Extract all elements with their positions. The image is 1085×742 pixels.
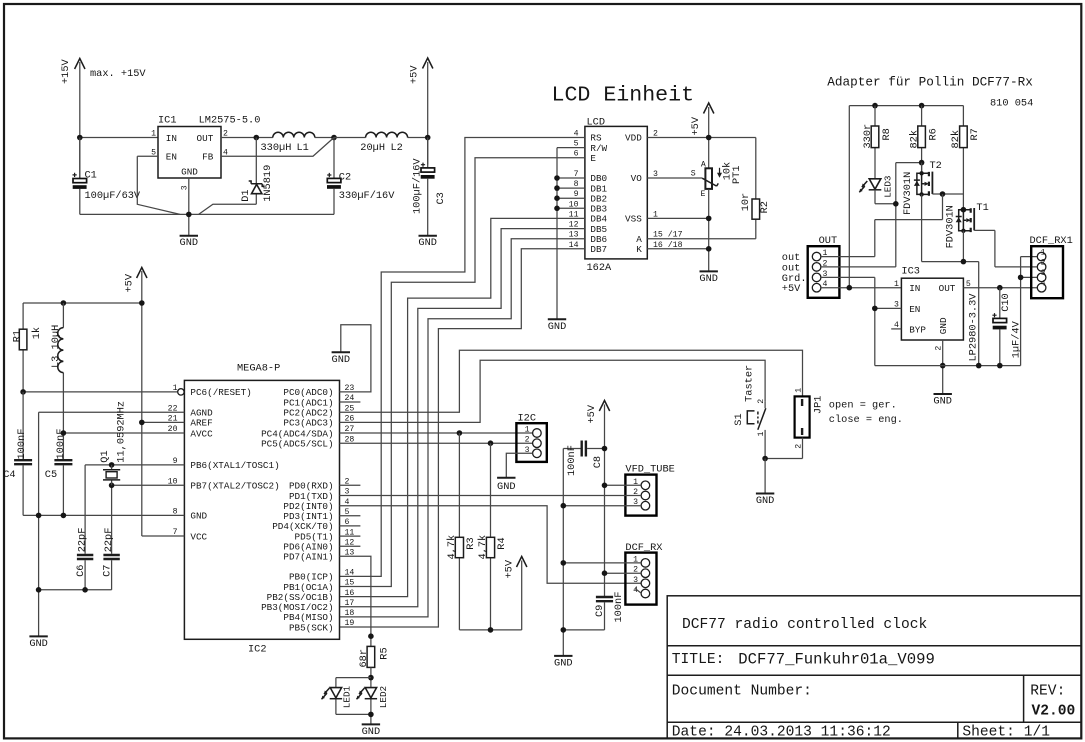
resistor R8 330r [862, 106, 893, 179]
svg-text:330µF/16V: 330µF/16V [339, 190, 395, 202]
svg-text:REV:: REV: [1030, 684, 1065, 700]
junction DCF_RX1 pin3 [1018, 275, 1024, 281]
wire I2C pin3 to ground [506, 453, 532, 477]
svg-text:PD7(AIN1): PD7(AIN1) [283, 552, 333, 563]
adapter top rail [849, 106, 963, 288]
junction S1/JP1 ground [762, 456, 768, 462]
svg-text:100µF/16V: 100µF/16V [411, 158, 423, 214]
ground symbol IC1 [180, 178, 199, 249]
svg-text:OUT: OUT [197, 133, 214, 144]
svg-text:2: 2 [757, 399, 766, 404]
svg-text:3: 3 [1041, 269, 1046, 278]
wire rail up to DCF_RX1 pins 1,3 [1021, 257, 1038, 366]
wire OUT pin4 +5V to IC3 IN [821, 287, 902, 289]
svg-text:GND: GND [497, 481, 516, 493]
svg-text:DB7: DB7 [590, 244, 607, 255]
junction R4 rail [488, 627, 494, 633]
junction VDD/+5V [706, 135, 712, 141]
capacitor C7 22pF [101, 528, 120, 590]
wire LCD A to R2 [647, 238, 756, 240]
wire OUT2 column to T2 drain [896, 163, 922, 267]
svg-text:+5V: +5V [586, 404, 598, 423]
svg-text:100nF: 100nF [613, 592, 625, 623]
svg-text:C2: C2 [339, 171, 351, 183]
connector OUT [808, 235, 840, 298]
MCU left pin numbers [168, 384, 178, 537]
svg-text:1: 1 [894, 280, 899, 289]
junction K [706, 246, 712, 252]
svg-text:3: 3 [633, 576, 638, 585]
wire AGND pin22 [39, 412, 185, 636]
wire GND pin8 row [23, 514, 184, 516]
svg-text:810 054: 810 054 [990, 98, 1033, 110]
top rail R1/L3/+5V [23, 302, 142, 304]
junction C8/+5V [602, 446, 608, 452]
svg-text:17: 17 [345, 599, 355, 608]
junction IC3 GND rail [940, 363, 946, 369]
ground symbol IC3 [933, 394, 952, 408]
MCU unconnected stubs pins 24,2,5,6,11,12 [340, 402, 361, 546]
svg-text:OUT: OUT [939, 283, 956, 294]
svg-text:AREF: AREF [190, 418, 212, 429]
svg-text:L2: L2 [391, 142, 403, 154]
inductor L3 10uH [50, 303, 64, 459]
svg-text:11,0592MHz: 11,0592MHz [115, 401, 127, 463]
supply symbol +5V (MCU) [124, 268, 148, 537]
junction DCFRX1/GND [561, 560, 567, 566]
ground symbol I2C [497, 478, 516, 493]
wire +5V to DCF_RX pin2 [605, 572, 642, 574]
LCD left pin numbers [569, 130, 579, 250]
svg-text:2: 2 [794, 444, 803, 449]
capacitor C6 22pF [75, 528, 94, 590]
capacitor C1 100uF/63V [73, 138, 141, 215]
svg-text:100nF: 100nF [55, 429, 67, 460]
wire PC2 pin25 to JP1 [340, 350, 803, 412]
svg-text:PB5(SCK): PB5(SCK) [289, 622, 334, 633]
pull-up rail to +5V [459, 629, 521, 631]
svg-text:BYP: BYP [909, 324, 926, 335]
junction VSS [706, 216, 712, 222]
junction C10 rail [997, 363, 1003, 369]
svg-text:max. +15V: max. +15V [90, 68, 146, 80]
svg-text:C8: C8 [592, 456, 604, 468]
svg-text:I2C: I2C [518, 413, 537, 425]
svg-text:GND: GND [29, 638, 48, 650]
svg-text:E: E [701, 190, 706, 199]
connector DCF_RX1 [1030, 235, 1073, 298]
junction R6 rail [919, 103, 925, 109]
wire PB7 pin10 to crystal and C7 [112, 485, 185, 554]
svg-text:R3: R3 [465, 537, 477, 549]
MCU right pin numbers [345, 384, 355, 628]
svg-text:LM2575-5.0: LM2575-5.0 [199, 115, 261, 127]
junction LED3/OUT2 [893, 201, 899, 207]
voltage regulator IC1 LM2575-5.0 [151, 115, 260, 191]
junction +15V/C1 [77, 135, 83, 141]
wire PB6 pin9 to crystal and C6 [85, 465, 184, 554]
svg-text:C7: C7 [101, 565, 113, 577]
junction +5V column [847, 285, 853, 291]
svg-text:LED2: LED2 [378, 686, 389, 708]
svg-text:19: 19 [345, 619, 355, 628]
junction EN/Grd column [872, 306, 878, 312]
svg-text:DCF_RX: DCF_RX [625, 542, 662, 554]
wire S1 to ground [764, 459, 766, 494]
crystal Q1 11,0592MHz [99, 401, 128, 485]
wire T2 source down [921, 194, 923, 261]
svg-text:GND: GND [699, 273, 718, 285]
svg-text:EN: EN [909, 304, 920, 315]
wire L1 to C2 node [315, 137, 334, 139]
wire bus DB5: LCD pin12 to MCU PB3 [340, 229, 585, 607]
capacitor C4 100nF [3, 392, 32, 516]
svg-text:IC2: IC2 [248, 644, 267, 656]
adapter ground rail [875, 365, 1021, 367]
svg-text:PT1: PT1 [731, 165, 743, 184]
capacitor C8 100nF [563, 441, 604, 477]
wire PC5 pin28 to I2C pin2 [340, 442, 533, 444]
svg-text:10r: 10r [740, 193, 752, 212]
svg-text:330r: 330r [862, 124, 874, 149]
svg-text:IC1: IC1 [158, 115, 177, 127]
svg-text:K: K [636, 244, 642, 255]
wire OUT pin2 [821, 266, 896, 268]
svg-text:GND: GND [190, 511, 207, 522]
regulator IC3 LP2980-3.3V [894, 265, 971, 350]
wire +5V to VFD pin1 [605, 484, 642, 486]
MCU left pin labels [190, 387, 279, 542]
reset pin bubble [178, 389, 184, 395]
svg-text:1: 1 [757, 432, 766, 437]
junction R4/SCL [488, 440, 494, 446]
svg-text:FDV301N: FDV301N [945, 205, 957, 248]
ground rail C6/C7 [39, 589, 112, 591]
wire IC3 EN [875, 307, 902, 309]
svg-text:S: S [691, 170, 696, 179]
svg-text:Adapter für Pollin DCF77-Rx: Adapter für Pollin DCF77-Rx [827, 75, 1033, 90]
wire bus DB6: LCD pin13 to MCU PB4 [340, 239, 585, 617]
LCD right pin numbers [653, 130, 683, 250]
wire PC6 reset row [23, 391, 178, 393]
jumper JP1 [765, 388, 824, 459]
wire bus DB4: LCD pin11 to MCU PB2 [340, 218, 585, 596]
svg-text:162A: 162A [587, 262, 613, 274]
wire bus DB7: LCD pin14 to MCU PB5 [340, 249, 585, 627]
wire IC1 FB to C2 node [221, 138, 334, 157]
svg-text:PC3(ADC3): PC3(ADC3) [283, 418, 333, 429]
svg-text:L1: L1 [297, 142, 309, 154]
svg-text:AVCC: AVCC [190, 428, 213, 439]
capacitor C3 100uF/16V [411, 138, 446, 236]
supply symbol +15V [60, 58, 85, 182]
title block frame [667, 596, 1081, 739]
svg-text:IC3: IC3 [901, 265, 920, 277]
wire PD7 pin13 to R5 [340, 556, 371, 646]
transistor T2 FDV301N [902, 160, 963, 215]
svg-text:68r: 68r [358, 649, 370, 668]
svg-text:2: 2 [1041, 259, 1046, 268]
LED LED2 [357, 686, 389, 708]
wire LCD R/W and DB0-DB3 tied to ground [554, 148, 585, 319]
stub IC3 BYP [891, 328, 901, 330]
svg-text:1: 1 [1041, 248, 1046, 257]
resistor R5 68r [358, 646, 391, 687]
svg-text:VFD_TUBE: VFD_TUBE [625, 464, 674, 476]
svg-text:+5V: +5V [504, 559, 516, 578]
svg-text:Sheet: 1/1: Sheet: 1/1 [962, 725, 1050, 741]
ground symbol LCD [699, 271, 718, 285]
MCU right pin labels [261, 387, 334, 633]
junction R3/SDA [457, 430, 463, 436]
junction AREF [139, 420, 145, 426]
wire PC3 pin26 to S1 [340, 360, 766, 422]
wire LCD VSS to GND column [647, 217, 708, 219]
wire LCD K to GND column [647, 248, 708, 250]
wire AVCC pin20 to L3/C5 [63, 432, 184, 434]
resistor R1 1k [12, 303, 43, 392]
resistor R3 4,7k [446, 433, 477, 630]
junction R1/C4 [20, 389, 26, 395]
supply symbol +5V (PSU output) [408, 58, 433, 165]
junction C10/OUT [997, 285, 1003, 291]
svg-text:R6: R6 [927, 128, 939, 140]
svg-text:VSS: VSS [625, 214, 642, 225]
svg-text:Date: 24.03.2013 11:36:12: Date: 24.03.2013 11:36:12 [672, 725, 891, 741]
svg-text:FB: FB [202, 152, 214, 163]
svg-text:R1: R1 [12, 330, 24, 342]
trimmer potentiometer PT1 10k [691, 160, 743, 199]
svg-text:1N5819: 1N5819 [262, 165, 274, 202]
wire VCC pin7 to +5V [142, 535, 185, 537]
connector DCF_RX [625, 542, 662, 605]
svg-text:EN: EN [166, 152, 177, 163]
svg-text:GND: GND [554, 657, 573, 669]
svg-text:+15V: +15V [60, 58, 72, 84]
svg-text:+5V: +5V [782, 283, 801, 295]
junction T2 drain [919, 160, 925, 166]
svg-text:+5V: +5V [408, 65, 420, 84]
svg-text:LCD: LCD [587, 116, 606, 128]
svg-text:JP1: JP1 [813, 396, 825, 415]
diode D1 1N5819 [199, 138, 274, 215]
resistor R2 10r [740, 138, 771, 239]
capacitor C9 100nF [563, 592, 625, 630]
junction AVCC [61, 430, 67, 436]
ground symbol C3 [418, 236, 437, 249]
supply symbol +5V (pull-ups) [504, 557, 527, 630]
svg-text:PB6(XTAL1/TOSC1): PB6(XTAL1/TOSC1) [190, 460, 279, 471]
text out out Grd. +5V [782, 252, 807, 295]
svg-text:R4: R4 [496, 537, 508, 549]
supply symbol +5V (LCD) [690, 103, 714, 168]
junction L1/L2/C2 [331, 135, 337, 141]
connector I2C [516, 413, 546, 462]
svg-text:PC6(/RESET): PC6(/RESET) [190, 387, 251, 398]
svg-text:14: 14 [345, 569, 355, 578]
svg-text:GND: GND [933, 396, 952, 408]
wire IC1 EN to ground [137, 156, 180, 214]
svg-text:E: E [590, 153, 596, 164]
svg-text:1k: 1k [31, 327, 43, 339]
svg-text:4,7k: 4,7k [477, 535, 489, 560]
junction T2 gate lead [940, 191, 946, 197]
wire LCD VO to trimmer wiper [647, 177, 702, 179]
wire LCD VDD to +5V and R2 [647, 137, 756, 139]
svg-text:2: 2 [525, 436, 530, 445]
svg-text:1: 1 [794, 388, 803, 393]
junction +5V/C3 [425, 135, 431, 141]
svg-text:LED3: LED3 [882, 175, 893, 197]
svg-text:+5V: +5V [690, 116, 702, 135]
svg-text:C4: C4 [3, 469, 15, 481]
svg-text:22pF: 22pF [103, 528, 115, 553]
wire bus E: LCD pin6 to MCU PB1 [340, 158, 585, 587]
ground symbol S1 [756, 494, 775, 508]
junction L3 top [61, 300, 67, 306]
svg-text:C5: C5 [45, 469, 57, 481]
svg-text:GND: GND [332, 354, 351, 366]
supply symbol +5V (VFD/DCF) [586, 401, 610, 597]
svg-text:DCF77 radio controlled clock: DCF77 radio controlled clock [682, 617, 927, 633]
svg-text:VO: VO [631, 173, 643, 184]
svg-text:MEGA8-P: MEGA8-P [237, 363, 280, 375]
svg-text:VCC: VCC [190, 531, 207, 542]
svg-text:V2.00: V2.00 [1032, 704, 1076, 720]
svg-text:S1: S1 [733, 413, 745, 425]
svg-text:T2: T2 [930, 160, 942, 172]
junction crystal bottom [109, 483, 115, 489]
wire IC1 OUT to L1 [221, 137, 273, 139]
svg-text:Document Number:: Document Number: [672, 684, 812, 700]
junction crystal top [109, 462, 115, 468]
wire PD2 pin4 to DCF_RX pin3 [340, 506, 642, 584]
svg-text:20µH: 20µH [360, 142, 385, 154]
ground symbol middle [554, 656, 573, 670]
svg-text:DCF77_Funkuhr01a_V099: DCF77_Funkuhr01a_V099 [738, 651, 935, 669]
svg-text:100nF: 100nF [566, 445, 578, 476]
wire GND to VFD pin3 [563, 505, 641, 507]
svg-text:GND: GND [362, 726, 381, 738]
junction VFD1/+5V [602, 483, 608, 489]
wire AREF pin21 to +5V [142, 421, 185, 423]
svg-text:82k: 82k [950, 130, 962, 149]
junction above R5 [368, 633, 374, 639]
svg-text:Q1: Q1 [99, 450, 111, 462]
junction R8 rail [872, 103, 878, 109]
transistor T1 FDV301N [945, 202, 995, 249]
svg-text:16: 16 [345, 589, 355, 598]
microcontroller IC2 MEGA8-P [184, 363, 339, 656]
ground column C8/VFD3/DCFRX1 [562, 449, 564, 656]
svg-text:C9: C9 [594, 605, 606, 617]
junction DCFRX2/+5V [602, 570, 608, 576]
svg-text:close = eng.: close = eng. [829, 414, 903, 426]
ground symbol LCD data lines [548, 319, 567, 333]
svg-text:1: 1 [525, 426, 530, 435]
svg-text:GND: GND [756, 495, 775, 507]
svg-text:D1: D1 [240, 189, 252, 201]
junction LED branch bottom [368, 712, 374, 718]
wire PC0 pin23 to ground [332, 325, 371, 392]
svg-text:C3: C3 [435, 192, 447, 204]
svg-text:100µF/63V: 100µF/63V [85, 190, 141, 202]
wire LED parallel branch [336, 678, 371, 724]
svg-text:R5: R5 [379, 647, 391, 659]
wire T1 gate to DCF_RX1 pin2 [995, 230, 1037, 267]
wire +15V to IC1 IN [80, 137, 158, 139]
wire T1 source to rail [922, 231, 979, 366]
svg-text:A: A [701, 160, 706, 169]
wire IC3 OUT to DCF_RX1 pin4 [963, 287, 1037, 289]
svg-text:C10: C10 [1000, 293, 1012, 312]
LCD display module 162A [585, 116, 647, 274]
junction T1 source rail [976, 363, 982, 369]
svg-text:+5V: +5V [124, 273, 136, 292]
svg-text:LCD Einheit: LCD Einheit [552, 84, 695, 108]
wire IC3 GND pin to rail [942, 340, 944, 394]
svg-text:VDD: VDD [625, 133, 642, 144]
resistor R7 82k [950, 106, 981, 210]
svg-text:TITLE:: TITLE: [672, 652, 725, 668]
ground symbol LEDs [362, 724, 381, 737]
wire OUT pin1 [821, 256, 875, 258]
svg-text:LP2980-3.3V: LP2980-3.3V [967, 293, 979, 362]
svg-text:PC5(ADC5/SCL): PC5(ADC5/SCL) [261, 439, 334, 450]
wire pot E to GND rail (LCD) [708, 189, 710, 271]
svg-text:GND: GND [180, 237, 199, 249]
svg-text:R7: R7 [969, 128, 981, 140]
capacitor C10 1uF/4V [992, 288, 1022, 366]
svg-text:LED1: LED1 [342, 685, 353, 708]
LED LED1 [322, 685, 353, 708]
switch S1 Taster [733, 365, 766, 459]
junction VFD3/GND [561, 503, 567, 509]
inductor L1 330uH [261, 132, 315, 154]
svg-text:GND: GND [548, 321, 567, 333]
junction C5/GND row [61, 513, 67, 519]
wire OUT pin3 to ground [821, 277, 875, 365]
wire PC4 pin27 to I2C pin1 [340, 432, 533, 434]
svg-text:82k: 82k [908, 130, 920, 149]
svg-text:FDV301N: FDV301N [902, 172, 914, 215]
junction AGND/GND row [36, 513, 42, 519]
svg-text:18: 18 [345, 609, 355, 618]
wire GND to DCF_RX pin1 [563, 562, 641, 564]
svg-text:Taster: Taster [743, 365, 755, 402]
junction LED branch top [368, 675, 374, 681]
svg-text:15: 15 [345, 579, 355, 588]
inductor L2 20uH [334, 132, 428, 154]
svg-text:C6: C6 [75, 565, 87, 577]
ground symbol left [29, 636, 48, 650]
wire bus RS: LCD pin4 to MCU PB0 [340, 138, 585, 577]
svg-text:4: 4 [1041, 280, 1046, 289]
junction T1 source [961, 259, 967, 265]
svg-text:open = ger.: open = ger. [829, 400, 897, 412]
svg-text:100nF: 100nF [16, 429, 28, 460]
svg-text:R8: R8 [881, 128, 893, 140]
svg-text:GND: GND [418, 237, 437, 249]
junction C6 rail [82, 587, 88, 593]
svg-text:R2: R2 [759, 201, 771, 213]
svg-text:22pF: 22pF [77, 528, 89, 553]
svg-text:GND: GND [181, 167, 198, 178]
junction D1/OUT [253, 135, 259, 141]
svg-text:T1: T1 [976, 202, 988, 214]
junction +5V top [139, 300, 145, 306]
ground rail under PSU [80, 213, 334, 215]
